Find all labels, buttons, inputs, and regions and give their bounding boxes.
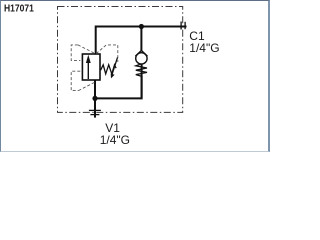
wire: top run from relief valve to port C1	[96, 27, 187, 55]
manifold boundary (dash-dot envelope)	[58, 7, 183, 113]
check valve seat	[135, 51, 147, 57]
pilot line: left upper dashed box	[71, 45, 95, 61]
svg-text:1/4"G: 1/4"G	[100, 133, 130, 147]
node: junction above port V1	[92, 96, 97, 101]
pilot line: right dashed run to spring	[96, 45, 118, 62]
wire: check valve to bottom run	[141, 64, 143, 98]
relief valve spring	[101, 65, 117, 74]
check valve ball	[136, 53, 147, 64]
relief valve body	[82, 54, 100, 80]
port C1 ticks	[181, 22, 185, 30]
relief valve flow arrow	[87, 62, 89, 80]
check valve spring	[136, 64, 147, 76]
svg-text:H17071: H17071	[4, 4, 34, 15]
pilot line: left lower dashed box	[71, 71, 94, 90]
relief valve adjustment arrow	[112, 57, 118, 74]
wire: check valve branch down from junction	[140, 27, 142, 51]
wire: bottom run from relief valve to check valve branch	[95, 76, 142, 98]
node: junction at top of check valve branch	[139, 24, 144, 29]
svg-text:1/4"G: 1/4"G	[189, 41, 219, 55]
wire: relief valve bottom port to V1	[94, 80, 96, 118]
port V1 ticks	[89, 110, 101, 114]
